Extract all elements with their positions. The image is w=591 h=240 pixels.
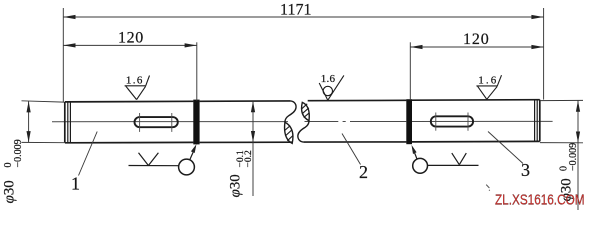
shaft right section outline <box>412 100 540 142</box>
shaft left section outline <box>65 101 194 143</box>
arrowhead right dia bottom <box>576 132 580 143</box>
shaft right end chamfer lines <box>535 100 538 142</box>
arrowhead 1171 right <box>531 15 543 19</box>
keyway right arc centre ticks <box>436 113 468 131</box>
svg-text:120: 120 <box>118 30 143 47</box>
svg-text:1: 1 <box>71 173 80 193</box>
svg-text:−0.009: −0.009 <box>568 143 579 171</box>
break curve left piece <box>285 101 296 122</box>
break hatched lens right <box>302 102 310 120</box>
break curve right piece <box>298 121 309 142</box>
dimension line 1171 <box>63 16 543 18</box>
diameter dimension right: dimension line with below extension <box>577 101 579 211</box>
arrowhead 120 right-right <box>531 45 543 49</box>
arrowhead middle dia top <box>251 101 255 112</box>
diameter text left (rotated) <box>2 139 24 203</box>
arrowhead 120 right-left <box>410 45 422 49</box>
arrowhead 120 left-left <box>63 43 75 47</box>
extension line at left shoulder (120) <box>196 42 198 101</box>
svg-text:−0.009: −0.009 <box>13 139 24 167</box>
arrowhead to left shoulder <box>191 144 197 153</box>
shoulder band left (filled) <box>193 100 199 145</box>
extension line at right shoulder (120) <box>409 42 411 100</box>
keyway left arc centre ticks <box>140 113 172 132</box>
leader 1 <box>79 132 98 176</box>
machining allowance symbol right (check + circle leader) <box>413 148 479 173</box>
extension line left (for 1171 and 120) <box>62 8 64 102</box>
centerline right of break dash-dot <box>305 121 407 123</box>
svg-text:φ30: φ30 <box>2 180 18 203</box>
diameter text right (rotated) <box>559 143 579 202</box>
arrowhead to right shoulder <box>412 145 417 154</box>
surface finish symbol middle (1.6 no material removal, circle) <box>319 75 344 100</box>
arrowhead middle dia bottom <box>251 131 255 142</box>
arrowhead 120 left-right <box>185 43 197 47</box>
arrowhead left dia top <box>27 101 31 112</box>
arrowhead right dia top <box>576 101 580 112</box>
svg-text:1.6: 1.6 <box>478 75 497 87</box>
shoulder band right (filled) <box>406 99 412 144</box>
dimension line 120 left <box>63 44 197 46</box>
shaft left end chamfer lines <box>68 102 71 143</box>
break hatched lens left <box>285 122 293 143</box>
svg-text:ZL.XS1616.COM: ZL.XS1616.COM <box>495 192 585 209</box>
svg-text:1.6: 1.6 <box>126 74 143 86</box>
svg-text:2: 2 <box>359 162 368 182</box>
leader 3 <box>488 132 523 164</box>
diameter dimension left: extension lines <box>22 101 65 143</box>
diameter dimension right: extension lines <box>540 100 583 142</box>
diameter dimension middle: dimension line with below extension <box>252 101 254 196</box>
svg-text:3: 3 <box>521 160 530 180</box>
svg-text:1171: 1171 <box>280 2 312 19</box>
extension line right (for 1171 and 120) <box>543 8 545 100</box>
shaft middle section outline (left of break) <box>200 101 293 142</box>
diameter dimension left: dimension line <box>28 101 30 142</box>
arrowhead 1171 left <box>63 15 75 19</box>
svg-text:−0.2: −0.2 <box>244 150 254 167</box>
surface finish symbol left (1.6 with bar) <box>125 76 150 100</box>
keyway slot right <box>431 116 473 126</box>
leader 2 <box>342 134 361 165</box>
svg-text:120: 120 <box>463 31 489 48</box>
centerline right section <box>412 120 553 122</box>
keyway slot left <box>135 117 178 127</box>
arrowhead left dia bottom <box>27 131 31 142</box>
diameter text middle (rotated) <box>228 150 254 197</box>
shaft middle section outline (right of break) <box>303 100 406 142</box>
dimension line 120 right <box>410 46 543 48</box>
centerline left portion <box>52 121 288 123</box>
surface finish symbol right (1.6 with bar) <box>476 75 501 99</box>
machining allowance symbol left (check + circle leader) <box>129 148 196 175</box>
svg-text:1.6: 1.6 <box>321 73 336 85</box>
svg-text:φ30: φ30 <box>228 174 244 197</box>
stray mark <box>486 185 490 191</box>
